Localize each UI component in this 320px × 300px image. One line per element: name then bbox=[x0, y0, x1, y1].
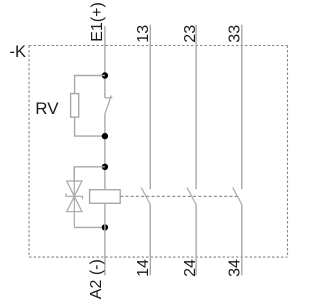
dashed enclosure box -K bbox=[29, 46, 288, 258]
svg-text:A2 (-): A2 (-) bbox=[88, 259, 105, 299]
varistor (bidirectional suppressor diode) bbox=[66, 167, 83, 228]
svg-text:13: 13 bbox=[135, 25, 152, 43]
resistor RV bbox=[71, 94, 79, 118]
wire 23 top bbox=[195, 25, 197, 189]
svg-text:24: 24 bbox=[182, 259, 199, 277]
svg-text:33: 33 bbox=[226, 25, 243, 43]
contact 13-14 bbox=[141, 188, 150, 205]
wire varistor branch top bbox=[74, 167, 105, 181]
node A bbox=[102, 72, 108, 78]
contact in coil circuit (E1 line) bbox=[105, 95, 113, 113]
mechanical linkage (dashed) bbox=[120, 195, 238, 197]
wire E1 line middle bbox=[104, 113, 106, 190]
coil K1 bbox=[90, 190, 121, 204]
contact 23-24 bbox=[187, 188, 196, 205]
wire 34 bottom bbox=[241, 205, 243, 276]
wire E1 top bbox=[104, 26, 106, 98]
svg-text:E1(+): E1(+) bbox=[89, 2, 106, 42]
wire 14 bottom bbox=[149, 205, 151, 276]
wire 33 top bbox=[241, 25, 243, 189]
svg-text:23: 23 bbox=[182, 25, 199, 43]
wire 13 top bbox=[149, 25, 151, 189]
contact 33-34 bbox=[233, 188, 242, 205]
svg-text:RV: RV bbox=[35, 99, 59, 118]
svg-text:34: 34 bbox=[226, 259, 243, 277]
svg-text:14: 14 bbox=[135, 259, 152, 277]
wire 24 bottom bbox=[195, 205, 197, 276]
wire RV branch top bbox=[75, 76, 105, 94]
svg-text:-K: -K bbox=[10, 43, 27, 61]
node C bbox=[102, 164, 108, 170]
wire A2 bottom bbox=[104, 203, 106, 275]
node B bbox=[102, 133, 108, 139]
node D bbox=[102, 224, 108, 230]
wire RV branch bottom bbox=[75, 117, 105, 136]
wire varistor branch bottom bbox=[74, 226, 105, 228]
